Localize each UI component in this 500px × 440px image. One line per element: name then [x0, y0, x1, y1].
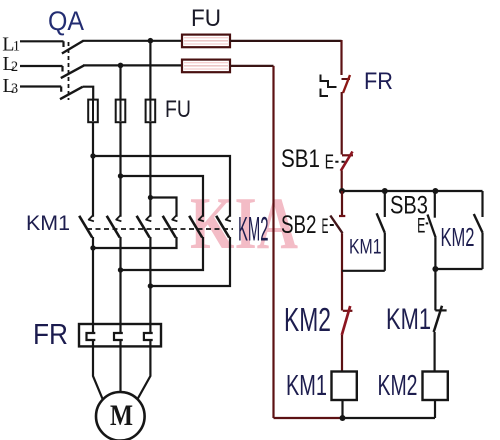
wire neutral return drop (from FU2) — [272, 66, 274, 418]
FR heater element C — [144, 324, 153, 346]
node bottom bus — [340, 415, 346, 421]
node C below contacts — [148, 283, 153, 288]
svg-text:2: 2 — [11, 59, 18, 75]
node L2/column B — [118, 63, 124, 69]
wire crossfeed A to KM2 c3 — [93, 156, 230, 217]
wire FR to SB1 — [341, 92, 343, 155]
wire L2 to fuse2 — [83, 64, 182, 66]
svg-text:FU: FU — [165, 96, 191, 123]
wire KM1 aux rejoin — [342, 270, 385, 272]
fuse FUc — [149, 100, 151, 121]
wire column A fuse to contact — [92, 122, 94, 217]
wire control bus — [342, 190, 483, 192]
svg-text:KM2: KM2 — [441, 222, 475, 252]
contact KM2 c1 — [172, 215, 177, 221]
wire L2 input — [20, 66, 63, 72]
svg-text:1: 1 — [13, 39, 20, 55]
svg-text:KM2: KM2 — [378, 370, 418, 402]
wire column C to FR — [149, 237, 151, 325]
button SB2 NO — [341, 191, 343, 216]
wire L3 input — [20, 87, 61, 92]
svg-text:FR: FR — [33, 319, 68, 351]
coil KM2 — [423, 372, 448, 401]
node C crossfeed — [148, 195, 153, 200]
switch QA pole 2 blade — [61, 65, 84, 78]
wire column B drop to fuse — [119, 65, 121, 99]
node KM1 aux branch — [382, 188, 388, 194]
svg-text:KM1: KM1 — [386, 303, 431, 336]
svg-text:KM2: KM2 — [284, 301, 331, 338]
contact KM2 NC interlock — [341, 302, 343, 311]
svg-text:KM2: KM2 — [238, 211, 269, 249]
contacts linkage dashed — [87, 228, 233, 230]
wire KM2 c1 return to A — [93, 237, 177, 248]
fuse FUa — [92, 100, 94, 121]
svg-text:FR: FR — [364, 68, 393, 95]
wire fuse1 to control column — [230, 40, 342, 42]
svg-text:SB1: SB1 — [281, 145, 320, 173]
svg-text:FU: FU — [191, 5, 221, 32]
FR trip bracket — [321, 75, 337, 97]
contact KM2 c3 — [226, 215, 231, 221]
fuse FU1 (row L1) — [182, 35, 230, 48]
button SB3 NO — [434, 191, 436, 218]
svg-text:KM1: KM1 — [349, 236, 382, 259]
wire motor lead A — [93, 347, 103, 400]
node A below contacts — [90, 245, 95, 250]
node L1/column C — [148, 38, 154, 44]
node SB3 rejoin — [432, 266, 438, 272]
node B below contacts — [118, 267, 123, 272]
wire column B to FR — [119, 237, 121, 325]
contact KM1 NC interlock — [434, 302, 436, 310]
wire KM2 c3 return to C — [150, 237, 230, 286]
button SB1 NC — [342, 154, 353, 156]
node control junction — [339, 188, 345, 194]
wire L1 input — [20, 41, 64, 47]
wire KM2 c2 return to B — [121, 237, 204, 270]
wire KM2 aux rejoin — [435, 268, 482, 270]
wire SB1 to node — [341, 171, 343, 192]
contact KM1 aux NO — [384, 191, 386, 217]
wire bottom bus right — [343, 417, 436, 419]
wire motor lead B — [119, 347, 121, 393]
wire column C fuse to contact — [149, 122, 151, 217]
svg-text:KM1: KM1 — [286, 370, 327, 402]
svg-text:E: E — [417, 214, 425, 237]
wire motor lead C — [137, 347, 150, 400]
FR heater element B — [114, 324, 123, 346]
contact KM1 c1 — [89, 215, 94, 221]
wire column C drop to fuse — [149, 41, 151, 100]
FR heater element A — [87, 324, 96, 346]
wire fuse2 to control return column — [230, 65, 274, 67]
svg-text:QA: QA — [48, 6, 84, 36]
svg-text:3: 3 — [11, 81, 18, 97]
contact KM1 c3 — [146, 215, 151, 221]
fuse FUb — [120, 100, 122, 121]
wire L1 to fuse1 — [83, 40, 182, 42]
contact KM2 aux NO — [481, 191, 483, 217]
contact KM2 c2 — [199, 215, 204, 221]
fuse FU2 (row L2) — [182, 60, 230, 73]
node A crossfeed — [90, 153, 95, 158]
thermal relay FR box — [79, 324, 161, 346]
QA linkage dashed — [68, 42, 70, 100]
switch QA pole 3 blade — [60, 87, 83, 100]
contact FR NC — [342, 78, 351, 80]
contact KM1 c2 — [116, 215, 121, 221]
wire column A to FR — [92, 237, 94, 325]
wire column B fuse to contact — [119, 122, 121, 217]
wire crossfeed C to KM2 c1 — [150, 198, 176, 217]
wire crossfeed B to KM2 c2 — [121, 176, 204, 217]
node B crossfeed — [118, 173, 123, 178]
coil KM1 — [332, 372, 357, 401]
svg-text:KM1: KM1 — [26, 212, 70, 235]
svg-text:SB2: SB2 — [281, 211, 317, 239]
wire control hot drop (from FU1) — [340, 40, 342, 75]
motor M — [96, 392, 145, 440]
wire bottom bus left — [274, 417, 343, 419]
svg-text:E: E — [325, 152, 334, 174]
switch QA pole 1 blade — [62, 41, 84, 54]
wire L3 to fuse A — [83, 87, 93, 100]
node SB3 branch — [432, 188, 438, 194]
svg-text:M: M — [110, 399, 133, 432]
svg-text:E: E — [322, 215, 329, 238]
